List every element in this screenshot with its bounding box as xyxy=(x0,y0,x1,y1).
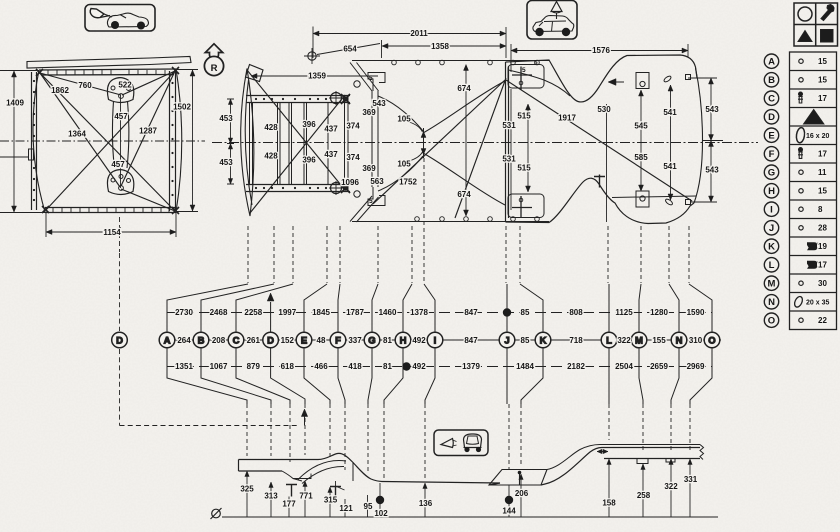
legend table xyxy=(764,52,836,330)
profile front block xyxy=(239,453,501,483)
nose top slant xyxy=(246,65,264,82)
svg-text:1096: 1096 xyxy=(341,178,359,187)
center vertical line xyxy=(120,95,122,188)
svg-text:1576: 1576 xyxy=(592,46,610,55)
svg-text:264: 264 xyxy=(177,336,191,345)
bottom bracket xyxy=(636,191,649,207)
svg-text:543: 543 xyxy=(705,166,719,175)
panel dim 543 xyxy=(688,78,723,202)
svg-text:28: 28 xyxy=(818,224,827,233)
svg-text:531: 531 xyxy=(502,155,516,164)
dim verticals xyxy=(247,459,690,517)
svg-text:206: 206 xyxy=(515,489,529,498)
svg-text:2659: 2659 xyxy=(650,362,668,371)
dim 674 vertical xyxy=(465,65,467,217)
kick pad parallelogram xyxy=(489,470,547,486)
svg-text:1590: 1590 xyxy=(687,308,705,317)
centerline horizontal xyxy=(0,140,205,142)
double arrow xyxy=(597,451,608,453)
nose lens xyxy=(241,69,254,217)
svg-text:H: H xyxy=(768,186,775,197)
pan bottom edge xyxy=(45,208,176,213)
svg-text:15: 15 xyxy=(818,76,827,85)
svg-text:16 x 20: 16 x 20 xyxy=(806,133,829,140)
svg-text:2504: 2504 xyxy=(615,362,633,371)
svg-text:522: 522 xyxy=(118,81,132,90)
svg-text:879: 879 xyxy=(247,362,261,371)
svg-text:543: 543 xyxy=(705,105,719,114)
pan right outer curve xyxy=(176,69,182,212)
svg-text:81: 81 xyxy=(383,336,392,345)
svg-text:1862: 1862 xyxy=(51,86,69,95)
svg-text:11: 11 xyxy=(818,168,827,177)
svg-text:563: 563 xyxy=(370,177,384,186)
midfloor top circles xyxy=(392,60,540,221)
svg-text:808: 808 xyxy=(569,308,583,317)
arrowheads at tops xyxy=(245,459,692,493)
svg-text:152: 152 xyxy=(281,336,295,345)
svg-text:2969: 2969 xyxy=(687,362,705,371)
svg-text:I: I xyxy=(770,204,773,215)
panel dim 545/585 xyxy=(640,90,642,191)
svg-text:H: H xyxy=(400,335,407,346)
top bracket xyxy=(636,73,649,89)
svg-text:5: 5 xyxy=(534,60,538,67)
left arrow symbol xyxy=(608,79,616,86)
svg-text:466: 466 xyxy=(314,362,328,371)
svg-text:17: 17 xyxy=(818,150,827,159)
svg-text:325: 325 xyxy=(240,485,254,494)
svg-text:105: 105 xyxy=(397,160,411,169)
svg-text:545: 545 xyxy=(634,122,648,131)
front rails horizontals xyxy=(246,96,350,192)
svg-text:543: 543 xyxy=(372,99,386,108)
midfloor top edge xyxy=(352,60,549,62)
svg-text:453: 453 xyxy=(219,158,233,167)
corner markers xyxy=(36,67,179,214)
svg-text:22: 22 xyxy=(818,316,827,325)
svg-text:674: 674 xyxy=(457,190,471,199)
datum baseline xyxy=(222,516,718,518)
svg-text:E: E xyxy=(768,130,774,141)
svg-text:258: 258 xyxy=(637,491,651,500)
svg-text:E: E xyxy=(301,335,307,346)
svg-text:396: 396 xyxy=(302,120,316,129)
svg-text:48: 48 xyxy=(317,336,326,345)
crosshair datum xyxy=(308,52,316,60)
svg-text:177: 177 xyxy=(282,500,296,509)
svg-text:760: 760 xyxy=(78,81,92,90)
center member xyxy=(112,101,128,168)
svg-text:541: 541 xyxy=(663,162,677,171)
top oval xyxy=(663,75,672,83)
member pads xyxy=(354,81,360,87)
dim 453 vertical xyxy=(227,99,234,184)
svg-text:1378: 1378 xyxy=(410,308,428,317)
dim 1409 xyxy=(0,71,46,213)
svg-text:G: G xyxy=(368,335,375,346)
notch left rail xyxy=(29,149,34,160)
rear panel bottom outline xyxy=(506,178,695,223)
midfloor bottom edge xyxy=(352,221,549,223)
svg-text:L: L xyxy=(769,260,775,271)
svg-text:K: K xyxy=(768,241,775,252)
panel dim 541 xyxy=(670,85,672,200)
svg-text:374: 374 xyxy=(346,153,360,162)
svg-text:585: 585 xyxy=(634,153,648,162)
dim 1502 xyxy=(176,70,198,212)
left rail dots xyxy=(33,80,174,201)
panel dim 515 xyxy=(527,104,529,192)
kick-up curves xyxy=(489,448,700,486)
svg-text:453: 453 xyxy=(219,114,233,123)
rail rivet dots xyxy=(255,98,327,189)
svg-text:261: 261 xyxy=(247,336,261,345)
filled reference dots xyxy=(376,496,384,504)
waist curves xyxy=(378,81,505,205)
svg-text:17: 17 xyxy=(818,261,827,270)
bottom turret xyxy=(107,170,133,195)
svg-text:1845: 1845 xyxy=(312,308,330,317)
svg-text:718: 718 xyxy=(569,336,583,345)
band: reference hole chain xyxy=(159,284,721,404)
rear panel top outline xyxy=(506,55,698,102)
icon box top-left (scriber + car) xyxy=(85,5,155,32)
diagonal crossing xyxy=(455,78,506,218)
svg-text:K: K xyxy=(540,335,547,346)
svg-text:310: 310 xyxy=(689,336,703,345)
svg-text:457: 457 xyxy=(114,112,128,121)
rail verticals xyxy=(250,91,379,190)
svg-text:322: 322 xyxy=(664,482,678,491)
svg-text:2730: 2730 xyxy=(175,308,193,317)
rear panel top inner xyxy=(509,70,571,96)
top pad xyxy=(508,65,544,89)
svg-text:618: 618 xyxy=(281,362,295,371)
legend 2x2 symbol box xyxy=(794,3,838,46)
rail jagged end xyxy=(700,445,704,460)
datum symbol xyxy=(212,509,221,518)
svg-text:L: L xyxy=(606,335,612,346)
svg-text:C: C xyxy=(233,335,240,346)
svg-text:19: 19 xyxy=(818,242,827,251)
svg-text:2258: 2258 xyxy=(244,308,262,317)
svg-text:530: 530 xyxy=(597,105,611,114)
diagonal 522 xyxy=(122,71,175,95)
svg-text:674: 674 xyxy=(457,84,471,93)
svg-text:15: 15 xyxy=(818,187,827,196)
svg-text:1351: 1351 xyxy=(175,362,193,371)
panel dim 531 xyxy=(510,89,512,210)
side view: underbody profile xyxy=(211,445,719,520)
top slant member xyxy=(350,63,379,92)
plan labels xyxy=(219,29,719,199)
svg-text:1125: 1125 xyxy=(615,308,633,317)
svg-text:O: O xyxy=(708,335,715,346)
left view: floor pan xyxy=(0,57,205,253)
svg-text:208: 208 xyxy=(212,336,226,345)
dim 1359 xyxy=(251,75,378,77)
diagonal 1752 xyxy=(373,80,505,204)
svg-text:1358: 1358 xyxy=(431,42,449,51)
svg-text:M: M xyxy=(768,278,776,289)
svg-text:155: 155 xyxy=(652,336,666,345)
svg-text:N: N xyxy=(768,297,775,308)
T bolts xyxy=(286,485,297,497)
small bracket at 671 xyxy=(666,459,675,463)
svg-text:A: A xyxy=(164,335,171,346)
svg-text:1484: 1484 xyxy=(516,362,534,371)
svg-text:5: 5 xyxy=(522,67,526,74)
dim 1358 xyxy=(382,40,507,58)
svg-text:337: 337 xyxy=(348,336,362,345)
edge tick marks top xyxy=(48,70,165,75)
waist vertical with arrows xyxy=(423,128,425,158)
svg-text:158: 158 xyxy=(602,499,616,508)
svg-text:102: 102 xyxy=(374,509,388,518)
svg-text:1917: 1917 xyxy=(558,114,576,123)
svg-text:1154: 1154 xyxy=(103,228,121,237)
svg-text:1752: 1752 xyxy=(399,178,417,187)
pan left rail xyxy=(32,72,37,210)
svg-text:369: 369 xyxy=(362,164,376,173)
dim 654 slant xyxy=(317,44,380,55)
svg-text:1997: 1997 xyxy=(278,308,296,317)
svg-text:492: 492 xyxy=(412,336,426,345)
dashed projection lines upper xyxy=(248,226,689,283)
svg-text:515: 515 xyxy=(517,112,531,121)
front X diagonal 2 xyxy=(250,95,345,213)
530 line xyxy=(606,104,608,222)
svg-text:D: D xyxy=(116,335,123,346)
svg-text:F: F xyxy=(769,149,775,160)
front underside details xyxy=(282,461,353,484)
svg-text:396: 396 xyxy=(302,156,316,165)
svg-text:144: 144 xyxy=(502,507,516,516)
svg-text:B: B xyxy=(768,75,775,86)
dim 1576 xyxy=(511,44,688,72)
bump stud xyxy=(594,175,605,188)
datum circled D left xyxy=(112,253,308,426)
svg-text:541: 541 xyxy=(663,108,677,117)
plan view: underbody xyxy=(212,27,758,284)
small squares xyxy=(686,75,691,80)
svg-text:1364: 1364 xyxy=(68,130,86,139)
anchor circles xyxy=(331,93,342,104)
svg-text:1409: 1409 xyxy=(6,99,24,108)
svg-text:136: 136 xyxy=(419,499,433,508)
svg-text:O: O xyxy=(768,315,775,326)
105 leaders xyxy=(409,122,423,161)
svg-text:D: D xyxy=(768,112,775,123)
svg-text:437: 437 xyxy=(324,125,338,134)
svg-text:G: G xyxy=(768,167,775,178)
svg-text:418: 418 xyxy=(348,362,362,371)
svg-text:322: 322 xyxy=(617,336,631,345)
svg-text:85: 85 xyxy=(521,336,530,345)
rear panel bottom inner line xyxy=(612,196,696,198)
svg-text:437: 437 xyxy=(324,150,338,159)
svg-text:515: 515 xyxy=(517,164,531,173)
svg-text:1379: 1379 xyxy=(462,362,480,371)
dashed projection lines lower xyxy=(247,404,690,478)
svg-text:374: 374 xyxy=(346,122,360,131)
bottom slant member xyxy=(350,196,379,222)
svg-text:81: 81 xyxy=(383,362,392,371)
svg-text:5: 5 xyxy=(369,75,373,82)
dim 1154 xyxy=(46,212,176,237)
pan top edge xyxy=(39,69,176,75)
diagonal bottom turret to BR xyxy=(121,189,175,211)
diagonal 1862 xyxy=(40,73,175,211)
diagonal 1364 line xyxy=(40,73,120,187)
svg-text:15: 15 xyxy=(818,57,827,66)
svg-text:315: 315 xyxy=(324,496,338,505)
svg-text:428: 428 xyxy=(264,152,278,161)
svg-text:D: D xyxy=(267,335,274,346)
svg-text:1359: 1359 xyxy=(308,72,326,81)
icon box bottom-center (front view car + cone) xyxy=(434,430,488,456)
rear panel left edge xyxy=(506,62,509,222)
svg-text:2011: 2011 xyxy=(410,29,428,38)
diagonal BL-TR xyxy=(46,71,175,210)
bracket under rail xyxy=(637,459,648,464)
svg-text:8: 8 xyxy=(818,205,823,214)
rear panel right edge xyxy=(694,68,703,203)
top turret xyxy=(107,78,133,103)
side view labels xyxy=(240,475,697,518)
svg-text:J: J xyxy=(504,335,509,346)
svg-text:771: 771 xyxy=(299,492,313,501)
svg-text:428: 428 xyxy=(264,123,278,132)
svg-text:313: 313 xyxy=(264,492,278,501)
front X diagonal 1 xyxy=(247,70,345,190)
svg-text:1787: 1787 xyxy=(346,308,364,317)
svg-text:1067: 1067 xyxy=(210,362,228,371)
svg-text:2468: 2468 xyxy=(210,308,228,317)
svg-text:J: J xyxy=(769,223,774,234)
bottom pad xyxy=(508,194,544,218)
svg-text:105: 105 xyxy=(397,115,411,124)
svg-text:1502: 1502 xyxy=(173,103,191,112)
svg-text:2182: 2182 xyxy=(567,362,585,371)
svg-text:121: 121 xyxy=(339,504,353,513)
edge tick marks bottom xyxy=(53,208,169,213)
svg-text:20 x 35: 20 x 35 xyxy=(806,300,829,307)
svg-text:1460: 1460 xyxy=(379,308,397,317)
svg-text:M: M xyxy=(635,335,643,346)
icon box top-center (plumb triangle over car) xyxy=(527,1,577,40)
svg-text:A: A xyxy=(768,57,775,68)
dashed waist vertical xyxy=(423,158,425,283)
left view labels xyxy=(6,81,191,238)
tiny pin-count labels xyxy=(369,60,538,206)
svg-text:331: 331 xyxy=(684,475,698,484)
svg-text:847: 847 xyxy=(464,336,478,345)
svg-text:457: 457 xyxy=(111,160,125,169)
svg-text:531: 531 xyxy=(502,121,516,130)
top strip panel xyxy=(27,57,191,69)
diagonal 760 xyxy=(40,73,121,95)
centerline xyxy=(212,142,758,144)
svg-text:95: 95 xyxy=(364,502,373,511)
diagonal 1917 xyxy=(506,80,692,201)
dim 2011 xyxy=(313,27,506,59)
pan right rail xyxy=(170,70,176,211)
svg-text:30: 30 xyxy=(818,279,827,288)
svg-text:847: 847 xyxy=(464,308,478,317)
svg-text:F: F xyxy=(335,335,341,346)
centerline below pan xyxy=(119,217,121,252)
symbol R with up arrow xyxy=(204,44,223,76)
pan left outer curve xyxy=(33,70,45,212)
diagonal 1287 xyxy=(121,71,175,186)
svg-text:369: 369 xyxy=(362,108,376,117)
svg-text:C: C xyxy=(768,94,775,105)
svg-text:1287: 1287 xyxy=(139,127,157,136)
svg-text:5: 5 xyxy=(369,198,373,205)
svg-text:N: N xyxy=(676,335,683,346)
bottom oval xyxy=(665,198,674,206)
svg-text:17: 17 xyxy=(818,94,827,103)
svg-text:492: 492 xyxy=(412,362,426,371)
svg-text:R: R xyxy=(211,63,218,74)
svg-text:85: 85 xyxy=(521,308,530,317)
svg-text:I: I xyxy=(434,335,437,346)
svg-text:1280: 1280 xyxy=(650,308,668,317)
svg-text:654: 654 xyxy=(343,45,357,54)
svg-text:B: B xyxy=(198,335,205,346)
